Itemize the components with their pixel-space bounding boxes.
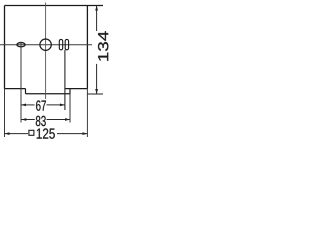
label 67 xyxy=(36,100,46,110)
extension line left edge down xyxy=(4,89,6,137)
plate outline right edge xyxy=(86,6,88,89)
label 134 xyxy=(98,31,108,61)
dimension 134 line top segment xyxy=(96,6,98,32)
extension line from small slot down xyxy=(20,42,22,123)
plate outline left edge xyxy=(4,6,6,89)
dimension 83 line left segment with arrow xyxy=(21,119,35,121)
dimension 125 line left segment with arrow xyxy=(5,133,29,135)
square symbol for 125 xyxy=(29,130,34,135)
right vertical slot xyxy=(65,39,68,49)
left vertical slot xyxy=(59,39,62,49)
bottom edge left section xyxy=(5,88,26,90)
bottom edge right section xyxy=(65,88,88,90)
arrow down 134 xyxy=(95,89,98,94)
extension line from vertical slots down xyxy=(64,50,66,110)
horizontal centerline xyxy=(0,44,92,46)
small mounting slot (left oval) xyxy=(17,43,25,47)
left step xyxy=(25,89,27,94)
extension line bottom right horizontal xyxy=(87,93,103,95)
dimension 67 line left segment with arrow xyxy=(21,104,35,106)
extension line from right step down xyxy=(69,94,71,123)
dimension 125 line right segment with arrow xyxy=(57,133,87,135)
center hole circle xyxy=(40,39,51,50)
right step xyxy=(69,89,71,94)
arrow up 134 xyxy=(95,6,98,11)
label 125 xyxy=(37,128,55,138)
plate outline top edge xyxy=(5,5,104,7)
dimension 67 line right segment with arrow xyxy=(47,104,65,106)
extension line right edge down xyxy=(86,89,88,137)
vertical centerline xyxy=(45,3,47,100)
bottom edge center section xyxy=(26,93,71,95)
label 83 xyxy=(36,116,46,126)
dimension 134 line bottom segment xyxy=(96,64,98,94)
dimension 83 line right segment with arrow xyxy=(47,119,71,121)
